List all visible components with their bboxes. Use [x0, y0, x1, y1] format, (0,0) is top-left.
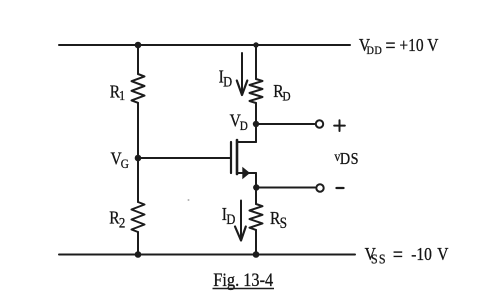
svg-text:Fig. 13-4: Fig. 13-4	[213, 269, 273, 290]
svg-text:R1: R1	[110, 81, 125, 103]
svg-text:VDD: VDD	[359, 35, 382, 57]
svg-text:ID: ID	[222, 204, 236, 228]
svg-text:VG: VG	[111, 148, 130, 171]
svg-text:RD: RD	[273, 81, 291, 104]
svg-text:VSS: VSS	[365, 244, 387, 267]
svg-text:vDS: vDS	[334, 148, 359, 168]
svg-text:=: =	[393, 244, 403, 267]
svg-text:=: =	[385, 35, 395, 58]
svg-text:V: V	[437, 244, 448, 264]
svg-text:ID: ID	[219, 67, 233, 90]
svg-text:V: V	[427, 35, 438, 55]
svg-text:R2: R2	[109, 207, 125, 231]
svg-text:RS: RS	[270, 208, 287, 232]
svg-text:VD: VD	[230, 110, 248, 133]
svg-text:-10: -10	[411, 244, 432, 264]
svg-text:+10: +10	[399, 35, 423, 55]
